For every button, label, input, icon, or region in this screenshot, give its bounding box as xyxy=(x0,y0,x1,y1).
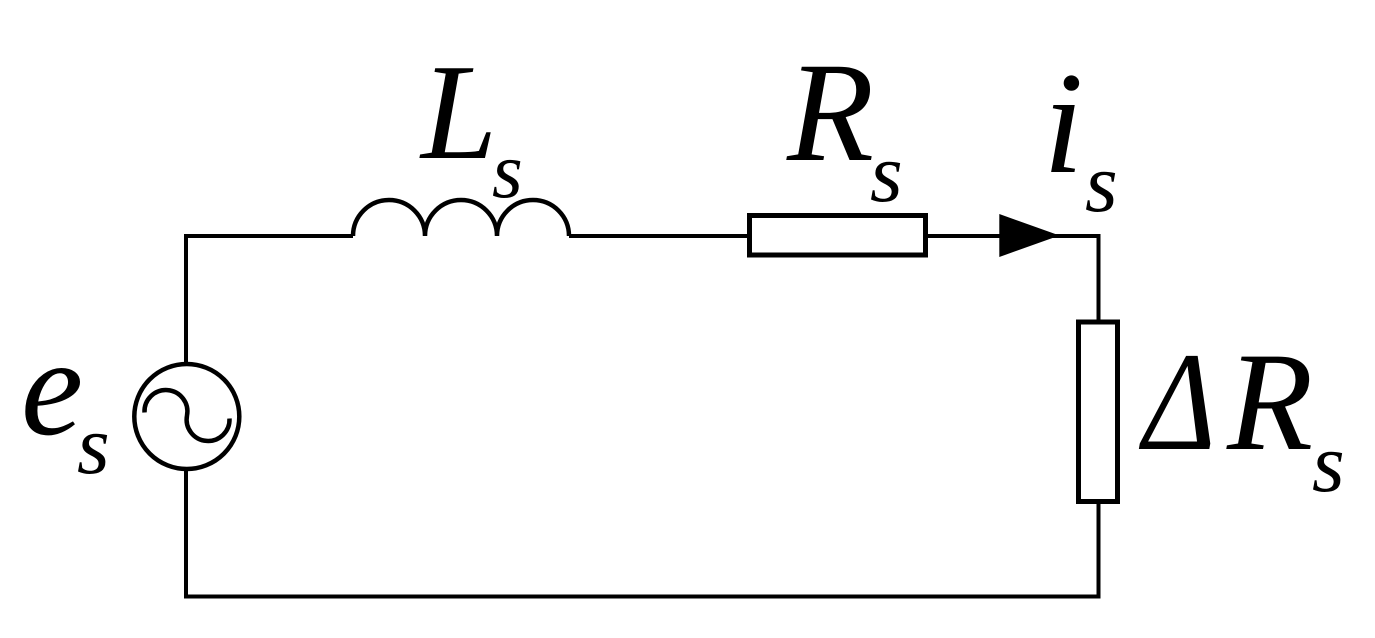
svg-text:e: e xyxy=(21,310,83,465)
wire: right vertical lower xyxy=(1097,501,1101,599)
arrowhead for current is xyxy=(999,214,1059,257)
svg-text:L: L xyxy=(419,36,497,188)
wire: bottom xyxy=(184,595,1101,599)
wire: left vertical lower xyxy=(184,470,188,597)
svg-text:R: R xyxy=(786,33,874,191)
inductor Ls xyxy=(353,200,569,236)
source es circle xyxy=(134,364,239,469)
resistor dRs xyxy=(1079,322,1118,502)
svg-text:s: s xyxy=(77,399,110,492)
svg-text:s: s xyxy=(870,127,903,220)
wire: top-left segment xyxy=(186,234,353,238)
wire: right vertical upper xyxy=(1097,234,1101,322)
wire: left vertical upper xyxy=(184,234,188,363)
resistor Rs xyxy=(750,216,926,256)
svg-text:s: s xyxy=(1312,417,1345,510)
svg-text:Δ: Δ xyxy=(1139,324,1216,480)
svg-text:R: R xyxy=(1226,324,1313,480)
sine wave inside source xyxy=(144,390,229,441)
svg-text:s: s xyxy=(492,128,523,215)
svg-text:s: s xyxy=(1085,137,1118,230)
wire: inductor to resistor Rs xyxy=(569,234,749,238)
svg-text:i: i xyxy=(1043,42,1084,204)
wire: resistor Rs to top-right corner xyxy=(925,234,1101,238)
